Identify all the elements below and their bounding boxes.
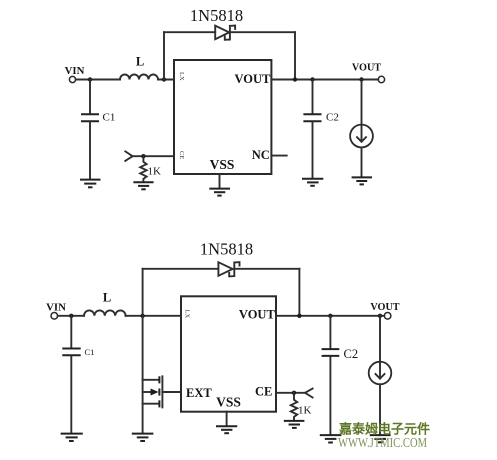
wire C1 to ground (bottom): [70, 356, 72, 433]
wire C2 to ground (bottom): [329, 357, 331, 435]
op IC box U1 (top): [174, 60, 271, 174]
transistor Q1 gate bar: [161, 376, 163, 407]
wire current source to ground (bottom): [379, 384, 381, 434]
svg-text:1N5818: 1N5818: [200, 240, 253, 259]
svg-text:VSS: VSS: [210, 157, 235, 172]
current source I1 arrow (top): [357, 127, 366, 142]
wire VOUT pin to output node (top): [271, 79, 378, 81]
capacitor C1 (top) wire down: [89, 80, 91, 114]
CE pin wire (bottom): [276, 392, 305, 394]
wire VOUT pin to output node (bottom): [276, 315, 384, 317]
junction dot CE/resistor (top): [141, 154, 145, 158]
wire inductor to IC box (top): [158, 79, 174, 81]
capacitor C2 plates (bottom): [322, 348, 340, 350]
transistor Q1 drain wire (bottom): [142, 316, 144, 433]
wire junction up to diode (bottom): [142, 269, 144, 316]
junction dot at C1 (bottom): [69, 314, 73, 318]
wire VIN to inductor (bottom): [58, 315, 84, 317]
wire C2 to ground (top): [312, 122, 314, 178]
svg-text:VIN: VIN: [46, 302, 66, 314]
diode D2 1N5818 triangle (bottom): [218, 262, 232, 276]
svg-text:VOUT: VOUT: [235, 72, 272, 86]
inductor L (bottom): [84, 310, 126, 315]
node VIN terminal circle (top): [69, 76, 75, 82]
CE arrow head (bottom): [305, 389, 313, 398]
capacitor C2 (bottom) wire down: [329, 316, 331, 348]
junction dot C2 (top): [310, 77, 314, 81]
transistor Q1 drain stub: [143, 379, 159, 381]
wire to diode anode (top): [164, 31, 215, 33]
wire to current source (bottom): [379, 316, 381, 362]
svg-text:C2: C2: [326, 112, 339, 124]
svg-text:L: L: [103, 291, 111, 305]
wire gate to EXT pin: [162, 391, 181, 393]
ground under C2 (bottom): [320, 435, 342, 442]
svg-text:VOUT: VOUT: [370, 302, 399, 313]
diode D1 1N5818 triangle (top): [215, 26, 229, 40]
ground under R2 (bottom): [284, 421, 305, 428]
svg-text:C1: C1: [103, 112, 116, 124]
svg-text:EXT: EXT: [186, 386, 212, 400]
wire drop to VOUT line (bottom): [298, 269, 300, 316]
wire to diode anode (bottom): [143, 268, 219, 270]
op IC box U2 (bottom): [181, 296, 276, 411]
wire VIN to inductor L (top): [76, 79, 120, 81]
svg-text:VOUT: VOUT: [239, 308, 276, 322]
svg-text:LX: LX: [178, 72, 185, 81]
svg-text:CE: CE: [255, 384, 272, 398]
ground under C2 (top): [302, 179, 323, 186]
junction dot at C1 (top): [88, 77, 92, 81]
junction dot diode/mosfet branch (bottom): [140, 314, 144, 318]
ground under current source (top): [352, 177, 372, 184]
ground under VSS (bottom): [216, 426, 237, 433]
VSS pin wire (top): [219, 174, 221, 188]
node VOUT terminal circle (bottom): [384, 313, 391, 320]
current source I2 arrow (bottom): [376, 364, 385, 379]
junction dot CE/resistor (bottom): [292, 391, 296, 395]
svg-text:C1: C1: [85, 347, 95, 357]
wire C1 to ground (top): [89, 122, 91, 179]
svg-text:WWW.JTMIC.COM: WWW.JTMIC.COM: [338, 435, 427, 450]
junction dot at diode branch (top): [162, 77, 166, 81]
svg-text:VOUT: VOUT: [352, 62, 381, 73]
svg-text:C2: C2: [344, 347, 359, 361]
capacitor C2 plates (top): [303, 113, 321, 115]
junction dot diode drop (top): [293, 77, 297, 81]
transistor Q1 body arrow: [151, 389, 159, 396]
wire junction up to diode (top): [163, 32, 165, 79]
wire current source to ground (top): [361, 147, 363, 176]
capacitor C2 (top) wire down: [312, 80, 314, 114]
inductor L (top): [120, 75, 158, 80]
ground under C1 (top): [80, 180, 101, 188]
svg-text:L: L: [136, 55, 144, 69]
wire CE arrow to box (top): [133, 155, 174, 157]
node VOUT terminal circle (top): [378, 76, 384, 82]
junction dot load (bottom): [378, 314, 382, 318]
transistor Q1 source stub: [143, 403, 159, 405]
svg-text:LX: LX: [184, 310, 191, 319]
wire drop to VOUT line (top): [294, 32, 296, 79]
diode D1 cathode bar with schottky hooks (top): [225, 26, 235, 40]
junction dot diode drop (bottom): [297, 314, 301, 318]
svg-text:VIN: VIN: [65, 65, 85, 77]
capacitor C1 plates (bottom): [62, 348, 80, 350]
VSS pin wire (bottom): [226, 412, 228, 426]
CE input arrow (top): [125, 151, 132, 161]
capacitor C1 (bottom) wire down: [70, 316, 72, 348]
ground under VSS (top): [209, 189, 230, 196]
node VIN terminal circle (bottom): [51, 313, 58, 320]
transistor Q1 body line: [143, 391, 152, 393]
ground under R1 (top): [133, 182, 153, 189]
svg-text:1K: 1K: [298, 405, 312, 417]
transistor Q1 channel segments: [158, 376, 160, 407]
ground under current source (bottom): [370, 435, 391, 442]
wire to current source (top): [361, 80, 363, 125]
ground under C1 (bottom): [61, 434, 83, 441]
svg-text:1K: 1K: [148, 166, 162, 178]
resistor R1 1K zigzag (top): [140, 156, 146, 181]
junction dot C2 (bottom): [328, 314, 332, 318]
capacitor C1 (top) plates: [81, 113, 99, 115]
resistor R2 1K zigzag (bottom): [291, 393, 297, 420]
ground under Q1 source (bottom): [132, 434, 154, 441]
current source I2 circle (bottom): [369, 362, 392, 385]
wire inductor to box (bottom): [126, 315, 181, 317]
wire diode cathode to right drop (top): [230, 31, 295, 33]
wire diode cathode right (bottom): [234, 268, 299, 270]
svg-text:VSS: VSS: [216, 395, 241, 410]
svg-text:CE: CE: [178, 151, 185, 159]
junction dot load (top): [359, 77, 363, 81]
current source I1 circle (top): [350, 125, 373, 148]
svg-text:NC: NC: [252, 148, 270, 162]
svg-text:1N5818: 1N5818: [190, 6, 243, 25]
NC pin stub wire (top): [271, 155, 286, 157]
diode D2 cathode bar with schottky hooks (bottom): [229, 262, 239, 276]
